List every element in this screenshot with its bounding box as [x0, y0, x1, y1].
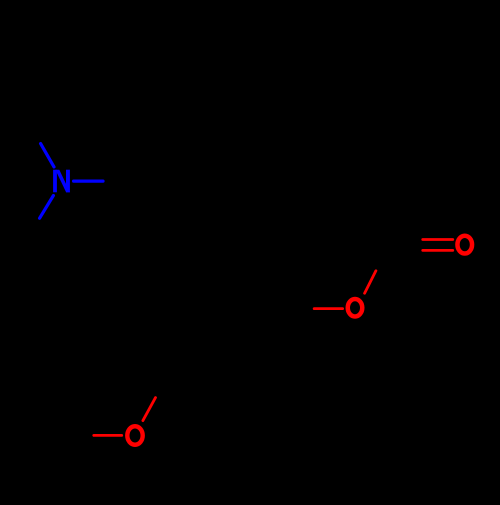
atom label O4 (carbonyl oxygen)	[457, 236, 472, 254]
atom label O3 (ester oxygen)	[348, 299, 363, 317]
atom label N1 (dimethylamino nitrogen)	[53, 170, 70, 193]
bond N1-C7 right (blue half)	[74, 180, 103, 183]
bond N1-CH3 upper-left (blue half)	[41, 144, 54, 167]
bond N1-CH3 lower-left (blue half)	[40, 196, 54, 219]
atom label O2 (methoxy oxygen)	[127, 426, 142, 445]
bond O3-C(=O) up-right (red half)	[365, 271, 376, 293]
bond O3-ring left (red half)	[314, 307, 342, 310]
bond O2-ring up-right (red half)	[143, 398, 156, 421]
double bond C=O lower line (red half)	[423, 249, 453, 252]
double bond C=O upper line (red half)	[423, 238, 453, 241]
bond O2-CH3 left (red half)	[94, 434, 122, 437]
